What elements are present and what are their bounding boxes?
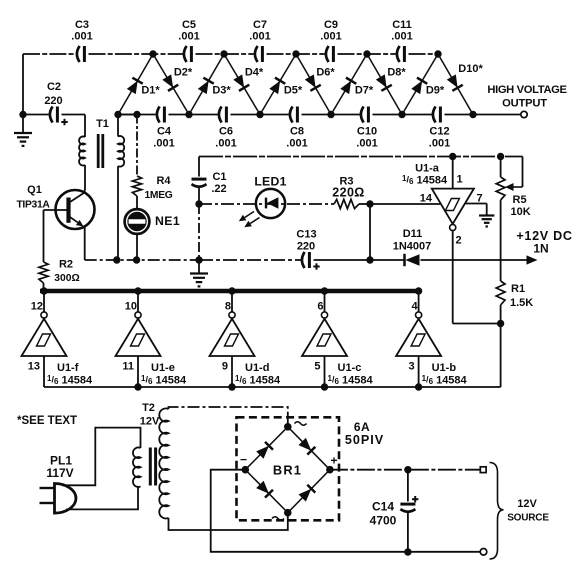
svg-text:1N: 1N (533, 242, 548, 256)
svg-text:T2: T2 (142, 402, 155, 414)
svg-text:BR1: BR1 (273, 463, 302, 478)
svg-text:.001: .001 (429, 138, 450, 150)
svg-text:1/6 14584: 1/6 14584 (235, 374, 281, 387)
svg-text:1N4007: 1N4007 (393, 241, 432, 253)
svg-text:U1-d: U1-d (245, 362, 269, 374)
svg-text:10K: 10K (511, 206, 531, 218)
svg-text:.001: .001 (215, 138, 236, 150)
svg-text:220: 220 (297, 241, 315, 253)
svg-text:D3*: D3* (212, 85, 231, 97)
svg-text:1/6 14584: 1/6 14584 (402, 174, 448, 187)
svg-text:C10: C10 (357, 126, 377, 138)
svg-text:U1-f: U1-f (57, 362, 79, 374)
svg-text:LED1: LED1 (254, 175, 286, 189)
svg-text:R5: R5 (513, 194, 527, 206)
svg-text:1/6 14584: 1/6 14584 (47, 374, 93, 387)
svg-text:U1-b: U1-b (432, 362, 457, 374)
svg-text:C6: C6 (219, 126, 233, 138)
svg-text:C8: C8 (290, 126, 304, 138)
svg-text:8: 8 (225, 301, 231, 313)
svg-text:.22: .22 (211, 183, 226, 195)
svg-text:1: 1 (457, 174, 463, 186)
svg-text:6: 6 (317, 301, 323, 313)
svg-text:12V: 12V (140, 416, 160, 428)
svg-text:D5*: D5* (284, 85, 303, 97)
svg-text:D6*: D6* (316, 67, 335, 79)
svg-text:R4: R4 (156, 175, 171, 187)
svg-text:*SEE TEXT: *SEE TEXT (17, 415, 77, 427)
svg-text:3: 3 (408, 361, 414, 373)
svg-text:C14: C14 (372, 500, 394, 514)
svg-text:C5: C5 (182, 19, 196, 31)
svg-text:+: + (330, 454, 337, 468)
svg-text:1/6 14584: 1/6 14584 (328, 374, 374, 387)
svg-text:.001: .001 (320, 31, 341, 43)
svg-text:13: 13 (28, 361, 40, 373)
svg-text:117V: 117V (46, 466, 73, 480)
svg-text:.001: .001 (178, 31, 199, 43)
svg-text:T1: T1 (96, 118, 109, 130)
svg-text:D1*: D1* (141, 85, 160, 97)
svg-text:.001: .001 (153, 138, 174, 150)
svg-text:.001: .001 (391, 31, 412, 43)
svg-text:6A: 6A (354, 420, 370, 434)
svg-text:.001: .001 (356, 138, 377, 150)
svg-text:R2: R2 (59, 259, 73, 271)
svg-text:2: 2 (456, 235, 462, 247)
svg-text:1.5K: 1.5K (510, 297, 533, 309)
svg-text:C12: C12 (429, 126, 449, 138)
svg-text:50PIV: 50PIV (345, 433, 384, 447)
svg-text:C2: C2 (47, 81, 61, 93)
svg-text:.001: .001 (286, 138, 307, 150)
svg-text:−: − (240, 453, 247, 467)
svg-text:C13: C13 (296, 229, 316, 241)
svg-text:D11: D11 (403, 228, 423, 240)
svg-text:C1: C1 (212, 171, 226, 183)
svg-text:1/6 14584: 1/6 14584 (422, 374, 468, 387)
svg-text:1MEG: 1MEG (145, 190, 173, 201)
svg-text:D9*: D9* (426, 85, 445, 97)
svg-text:D2*: D2* (174, 67, 193, 79)
svg-text:U1-e: U1-e (151, 362, 175, 374)
svg-text:5: 5 (314, 361, 320, 373)
svg-text:SOURCE: SOURCE (507, 513, 549, 524)
svg-text:C3: C3 (75, 19, 89, 31)
svg-text:D10*: D10* (458, 63, 483, 75)
svg-text:R1: R1 (511, 283, 525, 295)
svg-text:.001: .001 (71, 31, 92, 43)
svg-text:U1-a: U1-a (415, 163, 440, 175)
svg-text:220: 220 (44, 95, 62, 107)
svg-text:D8*: D8* (387, 67, 406, 79)
svg-text:12V: 12V (517, 498, 537, 510)
svg-text:12: 12 (31, 301, 43, 313)
svg-text:TIP31A: TIP31A (16, 200, 50, 211)
svg-text:220Ω: 220Ω (332, 186, 364, 200)
svg-text:Q1: Q1 (27, 184, 42, 196)
svg-text:U1-c: U1-c (338, 362, 362, 374)
svg-text:.001: .001 (249, 31, 270, 43)
svg-text:OUTPUT: OUTPUT (502, 98, 547, 110)
svg-text:10: 10 (125, 301, 137, 313)
svg-text:14: 14 (420, 193, 433, 205)
svg-text:300Ω: 300Ω (54, 273, 79, 284)
svg-text:HIGH VOLTAGE: HIGH VOLTAGE (487, 84, 567, 96)
svg-text:NE1: NE1 (155, 214, 180, 228)
svg-text:C9: C9 (324, 19, 338, 31)
svg-text:4700: 4700 (370, 514, 397, 528)
svg-text:11: 11 (122, 361, 134, 373)
svg-text:D4*: D4* (245, 67, 264, 79)
svg-text:C11: C11 (392, 19, 412, 31)
svg-text:1/6 14584: 1/6 14584 (141, 374, 187, 387)
svg-text:4: 4 (411, 301, 418, 313)
svg-text:9: 9 (222, 361, 228, 373)
svg-text:C4: C4 (157, 126, 172, 138)
svg-text:D7*: D7* (355, 85, 374, 97)
svg-text:C7: C7 (253, 19, 267, 31)
